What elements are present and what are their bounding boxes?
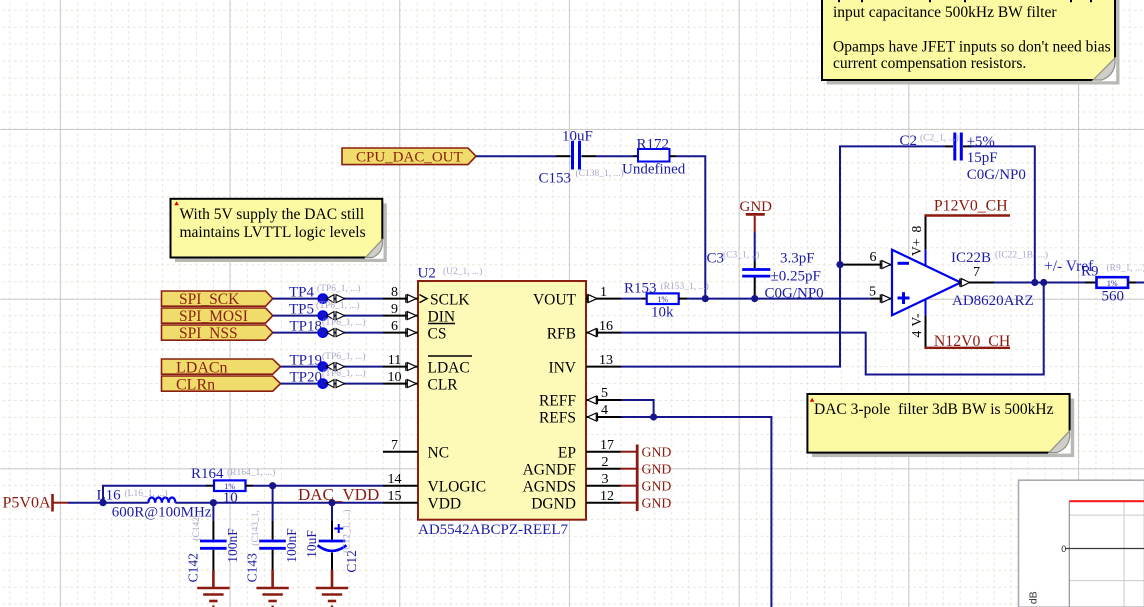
- svg-text:(U2_1, ...): (U2_1, ...): [443, 266, 482, 277]
- IC U2 AD5542ABCPZ-REEL7 body: [418, 266, 587, 539]
- U2 pin 7 NC: [383, 438, 449, 462]
- note N1: opamp filter note (top right, clipped at top): [822, 0, 1120, 85]
- svg-text:GND: GND: [642, 444, 672, 459]
- op-amp IC22B AD8620ARZ: [892, 250, 1048, 316]
- wire R153 to op-amp +input (node A): [687, 298, 871, 300]
- svg-text:1: 1: [600, 285, 607, 300]
- svg-text:7: 7: [391, 438, 398, 453]
- svg-text:TP20: TP20: [290, 370, 323, 386]
- svg-text:(TP6_1, ...): (TP6_1, ...): [316, 300, 360, 311]
- op-amp pin 8 V+: [909, 216, 926, 257]
- op-amp pin 6 (inverting input): [840, 250, 891, 269]
- ground symbol (C142): [197, 570, 229, 607]
- svg-text:With 5V supply the DAC still: With 5V supply the DAC still: [180, 206, 365, 223]
- svg-text:100nF: 100nF: [284, 528, 299, 563]
- testpoint TP4: [289, 283, 361, 303]
- power port P12V0_CH: [924, 198, 1010, 216]
- svg-text:±5%: ±5%: [967, 134, 995, 150]
- svg-text:Opamps have JFET inputs so don: Opamps have JFET inputs so don't need bi…: [833, 38, 1111, 55]
- svg-text:REFF: REFF: [539, 393, 576, 410]
- wire R164 to U2 VLOGIC: [253, 485, 383, 487]
- port SPI_SCK: [162, 291, 273, 308]
- U2 pin 6 CS (active low): [383, 319, 446, 343]
- svg-text:VLOGIC: VLOGIC: [428, 478, 487, 495]
- svg-text:AD8620ARZ: AD8620ARZ: [952, 293, 1034, 309]
- svg-text:LDACn: LDACn: [176, 359, 228, 376]
- svg-text:TP5: TP5: [289, 302, 314, 318]
- svg-text:10: 10: [223, 490, 238, 506]
- svg-text:AGNDF: AGNDF: [523, 461, 577, 478]
- wire U2 INV (pin 13) to minus input node: [621, 265, 840, 367]
- op-amp pin 5 (non-inverting input): [869, 284, 891, 303]
- svg-text:C0G/NP0: C0G/NP0: [967, 167, 1026, 183]
- svg-text:GND: GND: [740, 199, 773, 215]
- resistor R153 10k 1%: [624, 280, 709, 320]
- junction node A / C3 branch: [751, 295, 758, 302]
- svg-text:6: 6: [391, 319, 398, 334]
- wire U2 VOUT to R153: [621, 298, 642, 300]
- U2 pin 16 RFB: [547, 319, 621, 343]
- wire C153 to R172: [596, 155, 633, 157]
- U2 pin 5 REFF: [539, 386, 621, 410]
- svg-text:4: 4: [909, 331, 924, 338]
- svg-text:DGND: DGND: [531, 495, 576, 512]
- junction node A / R172 branch: [702, 295, 709, 302]
- testpoint TP18: [290, 317, 366, 337]
- wire U2 REFF (pin 5) to REFS node: [621, 400, 654, 417]
- svg-text:VOUT: VOUT: [533, 291, 577, 308]
- svg-text:9: 9: [391, 302, 398, 317]
- ground symbol (C143): [256, 570, 288, 607]
- svg-text:R172: R172: [637, 136, 670, 152]
- testpoint TP19: [290, 351, 366, 371]
- op-amp pin 7 (output): [960, 265, 994, 287]
- svg-text:C2: C2: [900, 133, 918, 149]
- port LDACn: [162, 359, 281, 376]
- svg-text:100nF: 100nF: [225, 528, 240, 563]
- U2 pin 10 CLR (active low): [383, 370, 458, 394]
- U2 pin 11 LDAC (active low): [383, 353, 472, 377]
- capacitor C153 10uF: [539, 129, 624, 187]
- svg-text:(R9_1, ...): (R9_1, ...): [1107, 262, 1144, 273]
- svg-text:CLR: CLR: [428, 376, 459, 393]
- svg-text:(C12_1, ...): (C12_1, ...): [342, 509, 353, 553]
- capacitor C2 15pF: [900, 133, 1026, 183]
- svg-text:DAC_VDD: DAC_VDD: [298, 485, 379, 504]
- svg-text:CLRn: CLRn: [176, 376, 215, 393]
- capacitor C142 100nF: [186, 503, 240, 583]
- svg-text:input capacitance 500kHz BW fi: input capacitance 500kHz BW filter: [833, 4, 1057, 21]
- U2 pin 4 REFS: [539, 403, 621, 427]
- svg-text:(C3_1, ..): (C3_1, ..): [723, 250, 759, 261]
- svg-text:3: 3: [602, 472, 609, 487]
- svg-text:AD5542ABCPZ-REEL7: AD5542ABCPZ-REEL7: [418, 522, 569, 538]
- svg-text:TP19: TP19: [290, 353, 323, 369]
- svg-text:GND: GND: [642, 495, 672, 510]
- junction C143 tap on VLOGIC net: [269, 482, 276, 489]
- svg-text:C153: C153: [539, 171, 572, 187]
- svg-text:NC: NC: [428, 444, 450, 461]
- svg-text:CPU_DAC_OUT: CPU_DAC_OUT: [356, 150, 463, 166]
- wire SPI_NSS to U2 pin 6: [273, 332, 383, 334]
- svg-text:(C2_1, ...): (C2_1, ...): [920, 133, 959, 144]
- svg-text:C143: C143: [245, 553, 260, 583]
- svg-text:(C138_1, ...): (C138_1, ...): [576, 168, 624, 179]
- U2 pin 12 DGND: [531, 489, 620, 513]
- svg-text:(L16_1, ...): (L16_1, ...): [125, 488, 168, 499]
- svg-text:10uF: 10uF: [304, 530, 319, 558]
- testpoint TP20: [290, 368, 366, 388]
- svg-text:R153: R153: [624, 280, 657, 296]
- capacitor C3 3.3pF: [707, 250, 824, 302]
- svg-text:N12V0_CH: N12V0_CH: [934, 333, 1010, 350]
- svg-text:1%: 1%: [1107, 279, 1118, 288]
- svg-text:RFB: RFB: [547, 325, 576, 342]
- svg-text:(TP6_1, ...): (TP6_1, ...): [322, 317, 366, 328]
- svg-text:16: 16: [599, 319, 613, 334]
- svg-text:TP4: TP4: [289, 285, 315, 301]
- junction output / RFB branch: [1040, 279, 1047, 286]
- svg-text:10uF: 10uF: [562, 129, 593, 145]
- svg-text:14: 14: [388, 472, 402, 487]
- port SPI_NSS: [162, 325, 273, 342]
- svg-text:3.3pF: 3.3pF: [780, 251, 815, 267]
- port SPI_MOSI: [162, 308, 273, 325]
- svg-text:C3: C3: [707, 251, 725, 267]
- svg-text:P5V0A: P5V0A: [3, 494, 51, 511]
- svg-text:11: 11: [388, 353, 401, 368]
- svg-text:maintains LVTTL logic levels: maintains LVTTL logic levels: [180, 224, 366, 241]
- U2 pin 14 VLOGIC: [383, 472, 486, 496]
- wire CPU_DAC_OUT to C153: [476, 155, 556, 157]
- svg-text:13: 13: [599, 353, 613, 368]
- svg-text:SCLK: SCLK: [430, 291, 470, 308]
- svg-text:(R164_1, ...): (R164_1, ...): [227, 467, 275, 478]
- U2 pin 2 AGNDF: [523, 455, 621, 479]
- svg-text:SPI_NSS: SPI_NSS: [179, 325, 238, 342]
- svg-text:2: 2: [602, 455, 609, 470]
- svg-text:LDAC: LDAC: [428, 359, 470, 376]
- svg-text:GND: GND: [642, 461, 672, 476]
- svg-text:±0.25pF: ±0.25pF: [771, 269, 821, 285]
- svg-text:R9: R9: [1081, 264, 1099, 280]
- svg-text:REFS: REFS: [539, 410, 576, 427]
- svg-text:10: 10: [388, 370, 402, 385]
- svg-text:(TP6_1, ...): (TP6_1, ...): [317, 283, 361, 294]
- svg-text:10k: 10k: [651, 305, 674, 321]
- U2 pin 8 SCLK: [383, 285, 470, 309]
- svg-text:12: 12: [600, 489, 614, 504]
- svg-text:8: 8: [391, 285, 398, 300]
- wire R9 to right edge: [1136, 282, 1144, 284]
- port CLRn: [162, 376, 281, 393]
- svg-text:(IC22_1B, ...): (IC22_1B, ...): [995, 250, 1048, 261]
- wire C2 left branch (minus input node, vertical at x=840): [840, 146, 945, 264]
- power port P5V0A: [3, 494, 69, 512]
- junction REFS node: [650, 413, 657, 420]
- inductor L16 600R@100MHz: [97, 488, 212, 521]
- junction output / C2 branch: [1031, 279, 1038, 286]
- svg-text:4: 4: [601, 403, 608, 418]
- svg-text:R164: R164: [191, 466, 224, 482]
- wire SPI_MOSI to U2 pin 9: [273, 315, 383, 317]
- svg-text:CS: CS: [428, 325, 447, 342]
- svg-text:AGNDS: AGNDS: [523, 478, 576, 495]
- svg-text:U2: U2: [418, 266, 436, 282]
- svg-text:V+: V+: [909, 239, 924, 256]
- wire LDACn to U2 pin 11: [281, 366, 384, 368]
- op-amp pin 4 V-: [909, 313, 926, 348]
- wire CLRn to U2 pin 10: [281, 383, 384, 385]
- svg-text:5: 5: [601, 386, 608, 401]
- svg-text:0: 0: [1061, 544, 1066, 554]
- wire R172 to node A (down to R153 output): [676, 156, 705, 298]
- wire U2 RFB (pin 16) feedback path to output junction: [621, 283, 1044, 375]
- svg-text:INV: INV: [548, 359, 576, 376]
- svg-text:DAC 3-pole filter 3dB BW is 5: DAC 3-pole filter 3dB BW is 500kHz: [814, 401, 1054, 418]
- svg-text:SPI_SCK: SPI_SCK: [179, 291, 240, 308]
- svg-text:15: 15: [388, 489, 402, 504]
- wire R164 branch (VLOGIC net): [103, 486, 206, 503]
- svg-text:8: 8: [909, 226, 924, 233]
- svg-text:IC22B: IC22B: [951, 250, 991, 266]
- power port N12V0_CH: [924, 333, 1010, 350]
- U2 pin 15 VDD: [383, 489, 461, 513]
- resistor R9 560 1%: [1081, 262, 1144, 304]
- svg-text:TP18: TP18: [290, 319, 323, 335]
- capacitor C143 100nF: [245, 486, 299, 583]
- svg-text:560: 560: [1102, 288, 1125, 304]
- svg-text:6: 6: [870, 250, 877, 265]
- note N2: 5V supply DAC note: [171, 199, 387, 262]
- svg-text:Undefined: Undefined: [622, 162, 686, 178]
- note N3: DAC 3-pole filter note: [807, 394, 1074, 457]
- svg-text:(R153_1, ...): (R153_1, ...): [661, 281, 709, 292]
- junction C12 tap: [328, 499, 335, 506]
- power port GND (above C3): [740, 199, 773, 232]
- simulation chart (bottom right): [1019, 480, 1144, 607]
- resistor R164 10 1%: [191, 466, 275, 506]
- svg-text:5: 5: [869, 284, 876, 299]
- U2 pin 9 DIN: [383, 302, 455, 326]
- U2 pin 3 AGNDS: [523, 472, 621, 496]
- svg-text:P12V0_CH: P12V0_CH: [934, 198, 1008, 215]
- wire op-amp output to R9: [994, 282, 1092, 284]
- U2 pin 13 INV: [548, 353, 621, 377]
- svg-text:(TP6_1, ...): (TP6_1, ...): [322, 368, 366, 379]
- svg-text:/ dB: / dB: [1028, 591, 1040, 607]
- svg-text:L16: L16: [97, 488, 122, 504]
- svg-text:VDD: VDD: [428, 495, 462, 512]
- svg-text:17: 17: [600, 438, 614, 453]
- wire C2 right branch to output junction: [971, 146, 1035, 282]
- wire P5V0A to L16: [68, 502, 148, 504]
- ground symbol (C12): [316, 570, 348, 607]
- wire C3 to node A: [754, 297, 756, 299]
- resistor R172 Undefined: [622, 136, 686, 177]
- wire U2 REFS (pin 4) down off sheet: [621, 417, 771, 607]
- wire GND to C3: [754, 232, 756, 261]
- testpoint TP5: [289, 300, 360, 320]
- svg-text:EP: EP: [558, 444, 576, 461]
- wire L16 to U2 VDD: [175, 502, 383, 504]
- junction minus input node: [836, 261, 843, 268]
- capacitor C12 10uF (polarized): [304, 503, 359, 573]
- svg-text:(C142_: (C142_: [191, 512, 202, 541]
- svg-text:current compensation resistors: current compensation resistors.: [833, 55, 1026, 72]
- U2 pin 1 VOUT: [533, 285, 621, 309]
- svg-text:SPI_MOSI: SPI_MOSI: [179, 308, 248, 325]
- svg-text:V-: V-: [909, 313, 924, 327]
- svg-text:1%: 1%: [657, 295, 668, 304]
- svg-text:7: 7: [973, 265, 980, 280]
- svg-text:GND: GND: [642, 478, 672, 493]
- svg-text:15pF: 15pF: [967, 150, 998, 166]
- svg-text:(TP6_1, ...): (TP6_1, ...): [322, 351, 366, 362]
- power port GND rail (right of U2, pins 17/2/3/12): [621, 444, 672, 511]
- wire SPI_SCK to U2 pin 8: [273, 298, 383, 300]
- U2 pin 17 EP: [558, 438, 621, 462]
- svg-text:C142: C142: [186, 553, 201, 582]
- junction C142 tap: [210, 499, 217, 506]
- junction R164 branch tap: [99, 499, 106, 506]
- port CPU_DAC_OUT: [342, 148, 476, 166]
- svg-text:(C143_1,: (C143_1,: [250, 510, 261, 546]
